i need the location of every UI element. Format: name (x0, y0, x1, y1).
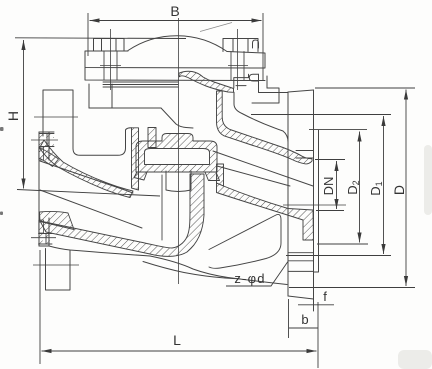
dim D1 bottom extension (286, 255, 391, 257)
hatched outlet lower wall band M (217, 183, 314, 240)
centerline right bolt (237, 29, 239, 90)
tick flange hole bottom left (31, 237, 56, 239)
hatched seat throat wall inner (148, 128, 156, 148)
right flange bottom edge (288, 296, 314, 299)
hatched left flange web upper (39, 147, 44, 160)
disc step ledge (234, 74, 259, 88)
dim B line (90, 20, 262, 22)
inlet chamber cup (73, 120, 132, 155)
right flange raised face (314, 130, 319, 272)
bonnet top plate (85, 51, 265, 68)
faint scan smudge right margin (424, 145, 432, 215)
svg-text:D: D (391, 185, 407, 195)
dim D bottom extension (289, 287, 415, 289)
bolt shank left (104, 51, 117, 80)
dim H line (23, 40, 25, 189)
hex bolt right (223, 39, 259, 52)
left flange bolt hole top (39, 134, 54, 147)
svg-text:z-φd: z-φd (234, 271, 265, 286)
dim b line (289, 327, 318, 329)
hatched band upper-left body wall (40, 140, 134, 198)
tick stud boss (34, 116, 78, 118)
svg-text:f: f (323, 289, 327, 304)
dim DN line (336, 161, 338, 209)
dim D2 top extension (309, 129, 367, 131)
tick flange hole top left (31, 139, 58, 141)
dim D1 top extension (251, 114, 391, 116)
dim D line (405, 90, 407, 287)
right flange top hole lines (296, 151, 314, 159)
hatched seat disc ring (136, 134, 217, 173)
hatched left flange web lower (39, 220, 44, 233)
stud boss left (43, 90, 73, 136)
foot (46, 249, 71, 291)
left flange back (48, 132, 50, 246)
svg-text:H: H (5, 111, 21, 121)
hatched seat lip left (134, 172, 147, 180)
right flange hub line (288, 270, 314, 272)
dim DN top extension (315, 159, 345, 161)
body neck outline right (234, 92, 288, 142)
centerline right pipe (283, 204, 346, 206)
scan speck left edge lower (0, 212, 3, 216)
gasket lines (103, 82, 178, 87)
hex bolt left (94, 39, 125, 52)
bonnet dome (128, 36, 227, 52)
bonnet right inner ledge (259, 74, 289, 92)
dim H top extension (15, 37, 186, 40)
dim B extension right (262, 13, 264, 80)
dim H bottom extension (17, 190, 160, 197)
hatched inlet wall wedge upper (39, 148, 59, 167)
body bottom skin (49, 246, 287, 285)
right flange bolt hole lines (288, 253, 314, 261)
right flange left edge (287, 92, 289, 296)
dim L line (42, 350, 317, 352)
left flange bottom edge (39, 245, 49, 247)
left flange bolt hole bottom (39, 234, 53, 245)
leader z-phi-d (226, 261, 288, 286)
outlet bore far line upper (213, 151, 313, 186)
left flange top edge (39, 131, 54, 133)
tick foot plug (33, 264, 79, 266)
dim D2 bottom extension (317, 243, 368, 245)
svg-text:b: b (301, 312, 308, 327)
right flange top edge (288, 90, 314, 92)
dim f line (298, 304, 334, 306)
stray scan mark (200, 23, 232, 32)
body bottom inner contour (143, 262, 240, 279)
outlet bore far line lower (217, 166, 290, 186)
hatched bonnet wall vertical to band U (217, 91, 313, 164)
stud boss right (252, 88, 279, 103)
inlet bore top far line (40, 161, 133, 193)
dim D2 line (359, 132, 361, 243)
dim D top extension (315, 87, 415, 89)
dim L left extension (39, 250, 41, 364)
hatched band lower body wall + seat tube J-bend (40, 174, 204, 256)
hatched inlet wall wedge lower (40, 211, 75, 229)
inlet bore bottom far line (40, 190, 142, 228)
scan speck left edge upper (0, 127, 4, 131)
rib outline bottom right (209, 214, 281, 268)
centerline vertical stem axis (178, 18, 180, 284)
dim D1 line (383, 116, 385, 254)
tick right bolt (228, 65, 248, 67)
left flange face (38, 132, 40, 246)
tick left bolt (100, 65, 121, 67)
hatched seat throat wall left (132, 128, 139, 190)
svg-text:DN: DN (321, 177, 336, 196)
dim B extension left (87, 13, 89, 56)
bonnet skirt left arm (89, 84, 112, 108)
hatched seat right wall lower (217, 164, 224, 186)
bolt shank right (231, 52, 244, 81)
centerline left bolt (110, 29, 112, 90)
bonnet lower plate (85, 68, 267, 89)
faint scan smudge bottom right (398, 350, 432, 369)
right flange face (313, 90, 315, 311)
hatched seat lip right (205, 172, 220, 181)
bonnet ceiling drop right (161, 108, 193, 128)
bonnet inner ceiling (89, 107, 161, 109)
guide stem (166, 171, 191, 192)
hatched disc plate with curled edge (179, 71, 234, 92)
svg-text:B: B (170, 3, 179, 19)
dim DN bottom extension (316, 210, 344, 212)
dim b left extension (288, 299, 290, 338)
seat bore left wall line (161, 175, 163, 240)
svg-text:L: L (173, 332, 181, 348)
dim L right extension (317, 302, 319, 368)
